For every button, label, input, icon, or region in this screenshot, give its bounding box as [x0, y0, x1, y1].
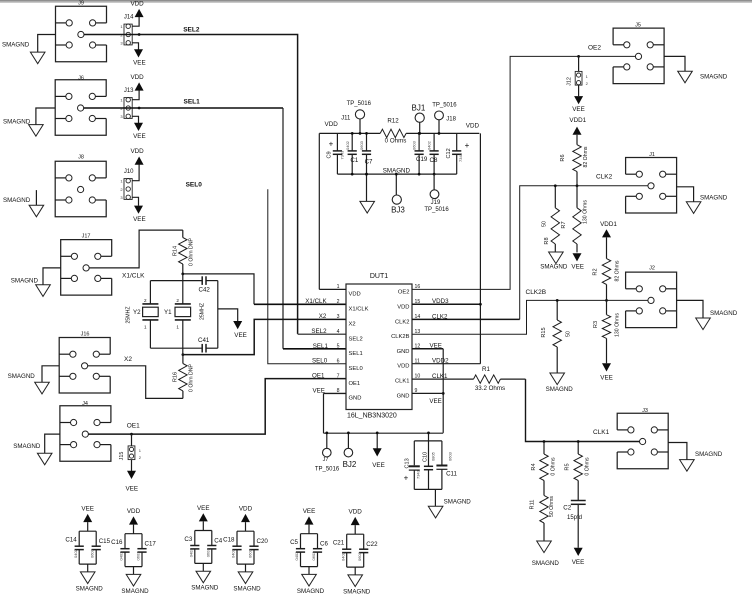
svg-text:SMAGND: SMAGND	[233, 585, 261, 592]
svg-text:C11: C11	[446, 470, 457, 477]
svg-text:J19: J19	[431, 200, 441, 206]
svg-text:R5: R5	[565, 463, 571, 470]
ground SMAGND at J4	[13, 434, 60, 465]
svg-text:VEE: VEE	[234, 332, 247, 339]
resistor R1 33.2 Ohms	[474, 366, 506, 392]
svg-text:3: 3	[337, 314, 340, 320]
svg-text:J6: J6	[78, 76, 84, 82]
svg-text:BJ3: BJ3	[391, 205, 405, 214]
svg-text:SMAGND: SMAGND	[11, 278, 39, 285]
svg-text:130 Ohms: 130 Ohms	[583, 200, 589, 224]
VEE arrow below J15	[125, 460, 138, 493]
svg-text:R15: R15	[541, 327, 547, 337]
wire R1 to CLK1 line	[500, 379, 639, 441]
bypass capacitors C21/C22 (VDD)	[333, 509, 378, 596]
svg-text:VEE: VEE	[133, 60, 146, 67]
net label X2 (at pin 3)	[319, 313, 327, 320]
wire crystal block to X2 line	[182, 348, 184, 354]
svg-text:C20: C20	[257, 538, 269, 545]
svg-text:C13: C13	[404, 458, 410, 468]
capacitor C9 (polarized)	[327, 133, 345, 174]
svg-text:VEE: VEE	[600, 375, 613, 382]
svg-text:GND: GND	[397, 349, 410, 355]
svg-text:C9: C9	[327, 151, 333, 158]
svg-text:SEL2: SEL2	[183, 27, 200, 34]
DUT1 pin names and numbers	[337, 284, 421, 401]
svg-text:15pfd: 15pfd	[567, 515, 582, 521]
svg-text:R4: R4	[531, 463, 537, 470]
svg-text:0603: 0603	[357, 551, 362, 561]
net label CLK1 (at J3)	[593, 429, 610, 436]
svg-text:VEE: VEE	[430, 343, 442, 350]
VEE arrow below J12	[572, 85, 585, 113]
wire OE1 net (J4 to DUT pin 7)	[88, 379, 346, 436]
resistor R15 50	[541, 299, 572, 373]
svg-text:VDD1: VDD1	[600, 221, 617, 228]
connector J16 (X2 input SMA)	[59, 331, 110, 393]
bypass capacitors C5/C6 (VEE)	[290, 508, 328, 595]
svg-text:CLK2: CLK2	[596, 174, 613, 181]
net label CLK2 (top)	[596, 174, 613, 181]
svg-text:SMAGND: SMAGND	[191, 585, 219, 592]
VEE arrow below R3	[600, 363, 613, 381]
svg-text:J14: J14	[124, 15, 134, 21]
svg-text:VDD1: VDD1	[569, 117, 586, 124]
svg-text:0402: 0402	[73, 548, 78, 558]
svg-text:BJ1: BJ1	[412, 103, 426, 112]
svg-text:0 Ohm DNP: 0 Ohm DNP	[189, 237, 195, 266]
svg-text:0603: 0603	[412, 140, 417, 150]
wire pin 1 VDD stub	[319, 288, 346, 290]
ground SMAGND at J1	[677, 187, 728, 214]
wire to C13/C10/C11 block	[414, 432, 442, 490]
VEE arrow at crystal caps	[218, 309, 247, 339]
svg-text:82 Ohms: 82 Ohms	[583, 146, 589, 167]
svg-text:0603: 0603	[90, 548, 95, 558]
svg-text:50: 50	[566, 331, 572, 337]
VDD1 arrow above R6	[573, 127, 582, 145]
capacitor C42	[199, 276, 211, 293]
capacitor C11	[436, 441, 457, 490]
svg-text:+: +	[329, 140, 334, 149]
wire CLK2B net (pin 13 to J2)	[412, 300, 648, 334]
svg-text:VEE: VEE	[133, 216, 146, 223]
crystal Y1 25MHZ	[164, 281, 206, 349]
ground SMAGND at J3	[668, 443, 722, 472]
svg-text:VEE: VEE	[429, 398, 441, 405]
svg-text:VDD2: VDD2	[432, 358, 449, 365]
net label SMAGND (top block)	[383, 167, 411, 174]
net label VDD (rail right)	[466, 123, 480, 130]
wire pin 10 CLK1 to R1	[412, 378, 474, 380]
svg-text:J17: J17	[82, 234, 91, 240]
svg-text:0402: 0402	[345, 140, 350, 150]
wire CLK2 net (pin 14 to J1)	[412, 186, 648, 320]
svg-text:0402: 0402	[231, 548, 236, 558]
svg-text:C16: C16	[111, 539, 123, 546]
net label CLK2B	[526, 289, 547, 296]
svg-text:C7: C7	[365, 159, 373, 166]
capacitor C7	[359, 132, 373, 176]
svg-text:C14: C14	[65, 537, 77, 544]
svg-text:16L_NB3N3020: 16L_NB3N3020	[347, 412, 397, 419]
test point J19 TP_5016	[424, 174, 449, 213]
svg-text:25MHZ: 25MHZ	[126, 306, 132, 323]
svg-text:0 Ohm DNP: 0 Ohm DNP	[189, 363, 195, 392]
svg-text:OE2: OE2	[398, 289, 410, 295]
svg-text:CLK1: CLK1	[432, 373, 448, 380]
net label SEL1 (top)	[184, 99, 201, 106]
svg-text:7343: 7343	[458, 152, 463, 162]
svg-text:6: 6	[337, 359, 340, 365]
svg-text:SMAGND: SMAGND	[297, 588, 325, 595]
svg-text:VEE: VEE	[572, 106, 585, 113]
connector J1 (CLK2 SMA)	[626, 152, 677, 213]
ground SMAGND at J8 (floating stem)	[3, 190, 44, 217]
svg-text:X2: X2	[319, 313, 327, 320]
svg-text:C1: C1	[350, 157, 358, 164]
ground SMAGND below R11	[532, 541, 560, 567]
svg-text:X1/CLK: X1/CLK	[122, 272, 145, 279]
svg-text:VDD3: VDD3	[432, 298, 449, 305]
svg-text:C21: C21	[333, 540, 345, 547]
resistor R12 0 Ohms	[380, 118, 406, 145]
resistor R11 50 Ohms	[530, 495, 556, 541]
ground SMAGND at J2	[677, 300, 738, 329]
svg-text:5: 5	[337, 344, 340, 350]
ground SMAGND below C block	[428, 489, 471, 518]
header J15 (2-pin jumper)	[119, 446, 142, 460]
capacitor C8	[427, 133, 439, 175]
svg-text:0603: 0603	[205, 548, 210, 558]
wire pin 9 GND	[412, 392, 443, 394]
header J10 (3-pin jumper)	[120, 169, 134, 200]
svg-text:VDD: VDD	[397, 304, 409, 310]
svg-text:+: +	[404, 474, 409, 483]
connector J17 (X1/CLK input SMA)	[61, 234, 112, 296]
wire pin 8 GND stub	[313, 387, 347, 394]
svg-text:R12: R12	[387, 118, 399, 125]
wire X2 from J16	[88, 366, 183, 399]
ground SMAGND below R15	[546, 373, 574, 393]
svg-text:SEL2: SEL2	[311, 328, 327, 335]
ground at top block	[360, 173, 375, 213]
svg-text:J3: J3	[642, 408, 648, 414]
ground SMAGND at J17	[11, 268, 61, 297]
svg-text:SMAGND: SMAGND	[13, 443, 41, 450]
test point J7 TP_5016	[315, 432, 340, 473]
svg-text:TP_5016: TP_5016	[347, 101, 372, 107]
net label CLK1 (at pin 10)	[432, 373, 448, 380]
svg-text:SMAGND: SMAGND	[546, 386, 574, 393]
svg-text:J7: J7	[323, 457, 329, 463]
net label VDD1 (above R6)	[569, 117, 586, 124]
svg-text:C41: C41	[198, 337, 210, 344]
svg-text:CLK2B: CLK2B	[526, 289, 547, 296]
svg-text:1: 1	[176, 324, 179, 329]
svg-text:R1: R1	[482, 366, 490, 373]
net label VDD3	[432, 298, 449, 305]
wire J15 to OE1	[131, 434, 133, 446]
svg-text:C2: C2	[563, 504, 571, 511]
svg-text:SEL1: SEL1	[349, 351, 363, 357]
net label SEL2 (at pin 4)	[311, 328, 327, 335]
svg-text:SMAGND: SMAGND	[343, 588, 371, 595]
banana jack BJ3	[391, 173, 405, 215]
svg-text:C18: C18	[223, 537, 235, 544]
svg-text:50 Ohms: 50 Ohms	[549, 496, 555, 517]
wire SEL0 net (riser to DUT pin 6)	[268, 189, 346, 363]
svg-text:0603: 0603	[359, 140, 364, 150]
svg-text:J18: J18	[446, 117, 456, 123]
net label VEE (pin 9)	[429, 398, 441, 405]
resistor R5 0 Ohms	[565, 440, 591, 500]
svg-text:SMAGND: SMAGND	[444, 499, 472, 506]
svg-text:SMAGND: SMAGND	[8, 373, 36, 380]
svg-text:R2: R2	[593, 268, 599, 275]
svg-text:VEE: VEE	[372, 462, 385, 469]
svg-text:C22: C22	[366, 541, 378, 548]
svg-text:0402: 0402	[340, 551, 345, 561]
svg-text:R3: R3	[593, 321, 599, 328]
svg-text:VDD: VDD	[466, 123, 480, 130]
svg-text:SMAGND: SMAGND	[76, 585, 104, 592]
VEE arrow at J14	[132, 43, 145, 67]
svg-text:VDD: VDD	[130, 148, 144, 155]
VEE arrow below R7	[571, 253, 584, 270]
connector J8 (SEL0 input SMA)	[55, 155, 106, 217]
svg-text:SMAGND: SMAGND	[3, 197, 31, 204]
svg-text:0805: 0805	[430, 451, 435, 461]
svg-text:X1/CLK: X1/CLK	[305, 298, 327, 305]
net label VDD1 (above R2)	[600, 221, 617, 228]
wire X2 node to DUT pin 3	[182, 319, 347, 356]
svg-text:0603: 0603	[311, 551, 316, 561]
svg-text:R7: R7	[561, 221, 567, 228]
wire X1/CLK from J17	[89, 230, 183, 268]
svg-text:VEE: VEE	[197, 505, 210, 512]
wire SMAGND bus (top block)	[337, 173, 456, 175]
VDD1 arrow above R2	[602, 229, 611, 258]
svg-text:SEL0: SEL0	[312, 358, 328, 365]
resistor R16 0 Ohm DNP	[173, 355, 195, 399]
net label OE2	[588, 44, 601, 51]
wire OE2 net (pin 16 to J5)	[412, 55, 635, 289]
svg-text:VEE: VEE	[571, 263, 584, 270]
test point J18 TP_5016	[432, 103, 457, 135]
svg-text:CLK1: CLK1	[395, 379, 410, 385]
svg-text:0 Ohms: 0 Ohms	[551, 457, 557, 476]
svg-text:R6: R6	[560, 154, 566, 161]
wire SEL2 net (J9 to DUT pin 4)	[84, 33, 346, 334]
svg-text:DUT1: DUT1	[370, 273, 388, 280]
svg-text:GND: GND	[349, 396, 362, 402]
svg-text:SMAGND: SMAGND	[710, 310, 738, 317]
capacitor C41	[198, 337, 210, 352]
svg-text:VDD: VDD	[130, 74, 144, 81]
svg-text:0402: 0402	[119, 551, 124, 561]
VEE arrow on bottom rail	[372, 432, 385, 470]
net label CLK2 (at pin 14)	[432, 313, 448, 320]
header J12 (2-pin jumper)	[566, 71, 588, 86]
svg-text:1: 1	[144, 324, 147, 329]
svg-text:J5: J5	[635, 23, 641, 29]
svg-text:82 Ohms: 82 Ohms	[615, 260, 621, 281]
svg-text:J13: J13	[124, 88, 134, 94]
svg-text:TP_5016: TP_5016	[315, 466, 340, 472]
svg-text:2: 2	[176, 298, 179, 303]
svg-text:J9: J9	[78, 1, 84, 7]
svg-text:0603: 0603	[136, 551, 141, 561]
svg-text:CLK1: CLK1	[593, 429, 610, 436]
wire VDD rail (top)	[319, 132, 479, 134]
wire VDD rail to DUT pin 1	[318, 133, 320, 289]
net label SEL2 (top)	[183, 27, 200, 34]
net label SEL1 (at pin 5)	[313, 343, 329, 350]
ground SMAGND at J9	[2, 35, 56, 64]
banana jack BJ1	[412, 103, 426, 134]
svg-text:25MHZ: 25MHZ	[200, 303, 206, 320]
svg-text:J11: J11	[341, 115, 351, 121]
svg-text:SMAGND: SMAGND	[700, 73, 728, 80]
wire pin 11 VDD2	[412, 363, 480, 365]
net label OE1 (at pin 7)	[312, 373, 325, 380]
svg-text:J8: J8	[78, 155, 84, 161]
banana jack BJ2	[343, 432, 357, 470]
svg-text:C17: C17	[145, 541, 157, 548]
ground SMAGND at J5	[664, 56, 728, 82]
VEE arrow below C2	[572, 548, 585, 566]
svg-text:C12: C12	[446, 148, 452, 158]
svg-text:0402: 0402	[189, 548, 194, 558]
header J14 (3-pin jumper)	[120, 15, 134, 46]
connector J2 (CLK2B SMA)	[626, 266, 677, 328]
connector J6 (SEL1 input SMA)	[55, 76, 106, 136]
wire pin 12 GND to VEE	[412, 349, 445, 433]
svg-text:SEL1: SEL1	[184, 99, 201, 106]
svg-text:C6: C6	[320, 541, 328, 548]
svg-text:VDD: VDD	[325, 121, 339, 128]
svg-text:C10: C10	[422, 452, 428, 462]
VDD arrow at J13	[130, 74, 144, 100]
svg-text:7: 7	[337, 373, 340, 379]
resistor R3 130 Ohms	[593, 300, 621, 363]
capacitor C10	[422, 441, 435, 490]
capacitor C12 (polarized)	[446, 133, 469, 174]
svg-text:SMAGND: SMAGND	[121, 588, 149, 595]
svg-text:C4: C4	[214, 537, 222, 544]
header J13 (3-pin jumper)	[120, 88, 134, 119]
svg-text:R8: R8	[544, 237, 550, 244]
net label X1/CLK (at J17)	[122, 272, 145, 279]
capacitor C13 (polarized)	[404, 441, 421, 490]
svg-text:C42: C42	[199, 286, 211, 293]
net label X1/CLK (at pin 2)	[305, 298, 327, 305]
svg-text:0402: 0402	[294, 551, 299, 561]
connector J9 (SEL2 input SMA)	[56, 1, 107, 62]
connector J5 (OE2 SMA)	[613, 23, 664, 84]
svg-text:130 Ohms: 130 Ohms	[615, 313, 621, 337]
svg-text:VDD: VDD	[127, 508, 141, 515]
svg-text:VEE: VEE	[125, 485, 138, 492]
svg-text:X1/CLK: X1/CLK	[349, 307, 369, 313]
bypass capacitors C18/C20 (VDD)	[223, 506, 268, 593]
net label VEE (pin 12)	[430, 343, 442, 350]
svg-text:R14: R14	[173, 246, 179, 256]
VDD arrow at J10	[130, 148, 144, 181]
svg-text:J10: J10	[124, 169, 134, 175]
svg-text:+: +	[465, 141, 470, 150]
wire pin 15 VDD3	[412, 303, 482, 306]
resistor R4 0 Ohms	[531, 440, 557, 495]
svg-text:VDD: VDD	[397, 364, 409, 370]
wire VEE bottom rail	[324, 393, 444, 433]
wire crystal top rail	[150, 274, 217, 281]
svg-text:SEL0: SEL0	[186, 182, 203, 189]
svg-text:SMAGND: SMAGND	[540, 264, 568, 271]
test point J11 TP_5016	[341, 101, 371, 135]
resistor R6 82 Ohms	[560, 145, 589, 188]
svg-text:CLK2B: CLK2B	[391, 334, 410, 340]
net label SEL0 (at pin 6)	[312, 358, 328, 365]
svg-text:Y1: Y1	[164, 309, 172, 316]
resistor R7 130 Ohms	[561, 186, 589, 253]
capacitor C1	[345, 132, 359, 176]
svg-text:OE1: OE1	[312, 373, 325, 380]
VEE arrow at J10	[132, 197, 145, 223]
svg-text:VDD: VDD	[130, 1, 144, 8]
net label VDD (rail left)	[325, 121, 339, 128]
resistor R8 50	[542, 184, 560, 252]
svg-text:VDD: VDD	[349, 292, 361, 298]
wire X1/CLK node to DUT pin 2	[181, 273, 346, 305]
op-amp DUT1 box (16L_NB3N3020)	[346, 273, 412, 420]
wire VDD rail to pins 15/11	[479, 133, 481, 363]
svg-text:SMAGND: SMAGND	[532, 560, 560, 567]
VEE arrow at J13	[132, 116, 145, 140]
wire J12 to OE2	[578, 56, 580, 71]
svg-text:VEE: VEE	[133, 133, 146, 140]
svg-text:4: 4	[337, 329, 340, 335]
wire SEL1 net (J6 to DUT pin 5)	[84, 107, 346, 349]
svg-text:J1: J1	[649, 152, 655, 158]
capacitor C19	[412, 132, 428, 176]
svg-text:0 Ohms: 0 Ohms	[385, 137, 407, 144]
svg-text:C15: C15	[99, 538, 111, 545]
svg-text:SEL1: SEL1	[313, 343, 329, 350]
crystal Y2 25MHZ	[126, 281, 159, 349]
svg-text:R11: R11	[530, 500, 536, 510]
svg-text:CLK2: CLK2	[432, 313, 448, 320]
svg-text:2: 2	[144, 298, 147, 303]
svg-text:J4: J4	[82, 401, 88, 407]
svg-text:VEE: VEE	[313, 387, 325, 394]
svg-text:GND: GND	[397, 393, 410, 399]
bypass capacitors C16/C17 (VDD)	[111, 508, 156, 595]
svg-text:OE2: OE2	[588, 44, 601, 51]
svg-text:VDD: VDD	[239, 506, 253, 513]
svg-text:SMAGND: SMAGND	[3, 119, 31, 126]
svg-text:BJ2: BJ2	[343, 460, 357, 469]
net label X2 (at J16)	[124, 356, 132, 363]
net label SEL0 (top)	[186, 182, 203, 189]
capacitor C2 15pfd	[563, 501, 585, 548]
svg-text:7343: 7343	[416, 469, 421, 479]
connector J4 (OE1 input SMA)	[60, 401, 111, 461]
net label VDD2	[432, 358, 449, 365]
svg-text:SMAGND: SMAGND	[695, 451, 723, 458]
connector J3 (CLK1 SMA)	[617, 408, 668, 469]
